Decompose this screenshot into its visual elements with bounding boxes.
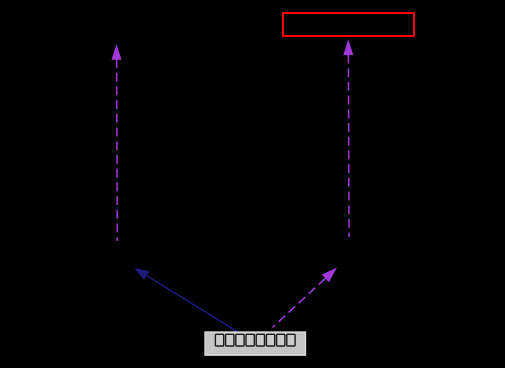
edge: left purple dashed arrow (vertical)	[112, 44, 122, 241]
node: grey current-class box (bottom center)	[205, 332, 306, 355]
label: tofu glyph 2	[226, 334, 234, 346]
label: tofu glyph 3	[236, 334, 244, 346]
label: tofu glyph 6	[266, 334, 274, 346]
label: tofu glyph 7	[277, 334, 285, 346]
edge: blue solid inheritance arrow (from grey node up-left)	[134, 268, 238, 332]
label: tofu glyph 8	[287, 334, 295, 346]
edge: diagonal purple dashed arrow (from grey node up-right)	[273, 268, 338, 328]
label: tofu glyph 5	[256, 334, 264, 346]
edge: right purple dashed arrow (vertical, points to red box)	[343, 39, 353, 237]
node: red-bordered class box (top right)	[283, 13, 414, 36]
label: tofu glyph 1	[215, 334, 223, 346]
label: tofu glyph 4	[246, 334, 254, 346]
